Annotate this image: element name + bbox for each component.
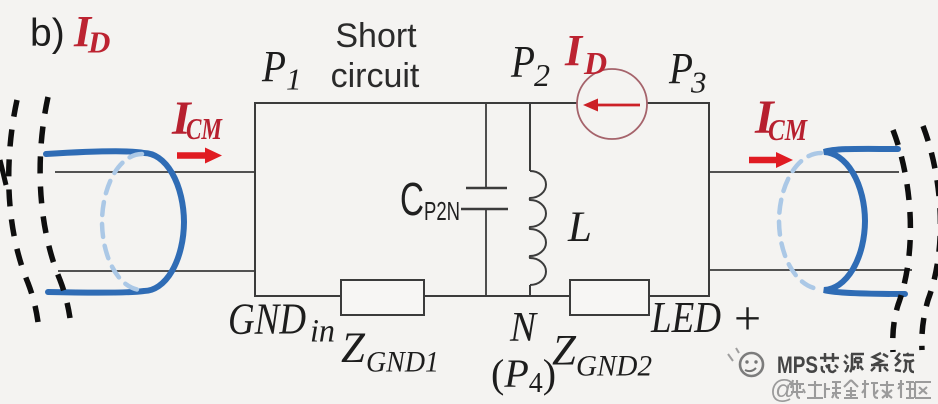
svg-text:3: 3 — [690, 65, 707, 100]
svg-text:LED: LED — [650, 293, 721, 342]
arrow I_CM left — [177, 152, 208, 159]
svg-text:Short: Short — [335, 17, 417, 55]
watermark hanzi line1 — [820, 353, 914, 372]
cable shield right (solid front half) — [824, 149, 905, 294]
svg-text:D: D — [583, 45, 607, 81]
svg-text:GND2: GND2 — [576, 350, 652, 383]
arrow I_CM right — [749, 157, 777, 164]
watermark logo — [728, 348, 763, 376]
svg-text:GND1: GND1 — [366, 346, 439, 379]
wire right cable return — [709, 269, 912, 271]
wire right cable live — [709, 171, 899, 173]
svg-text:P: P — [668, 44, 693, 93]
svg-text:P2N: P2N — [424, 196, 460, 226]
svg-text:P: P — [261, 42, 286, 91]
wire left cable live to P1 node — [55, 171, 255, 173]
svg-text:1: 1 — [286, 62, 302, 97]
svg-text:circuit: circuit — [331, 57, 420, 95]
svg-text:(P4): (P4) — [491, 351, 556, 399]
impedance box Z_GND2 — [570, 280, 649, 315]
cable shield left (dashed back half) — [102, 154, 142, 290]
cable shield right (dashed back half) — [779, 153, 821, 289]
svg-text:b): b) — [30, 12, 65, 55]
svg-text:D: D — [87, 25, 110, 60]
svg-text:@: @ — [770, 374, 796, 404]
svg-text:L: L — [567, 204, 592, 251]
current source I_D — [577, 69, 647, 139]
wire bottom bus GND — [254, 295, 710, 297]
wire top bus P1 to current source — [255, 102, 578, 104]
svg-text:Z: Z — [341, 325, 366, 372]
svg-text:CM: CM — [186, 111, 223, 146]
cable shield left (solid front half) — [46, 151, 184, 292]
svg-text:Z: Z — [552, 328, 577, 375]
svg-text:CM: CM — [768, 112, 808, 147]
wire left vertical P1 down — [254, 102, 256, 296]
svg-text:GND: GND — [228, 295, 306, 344]
svg-text:+: + — [734, 292, 761, 345]
cable break marks left — [0, 97, 70, 322]
svg-text:I: I — [564, 26, 584, 75]
wire current source to P3 corner — [646, 102, 709, 104]
svg-text:2: 2 — [534, 57, 550, 93]
wire right vertical P3 down — [708, 102, 710, 296]
wire left cable return — [58, 270, 255, 272]
impedance box Z_GND1 — [341, 280, 424, 315]
svg-text:in: in — [310, 314, 335, 350]
cable break marks right — [893, 126, 938, 352]
svg-text:P: P — [510, 37, 535, 87]
inductor L — [530, 103, 546, 296]
svg-text:C: C — [400, 173, 424, 225]
capacitor C_P2N — [461, 103, 508, 296]
svg-text:N: N — [509, 305, 538, 351]
